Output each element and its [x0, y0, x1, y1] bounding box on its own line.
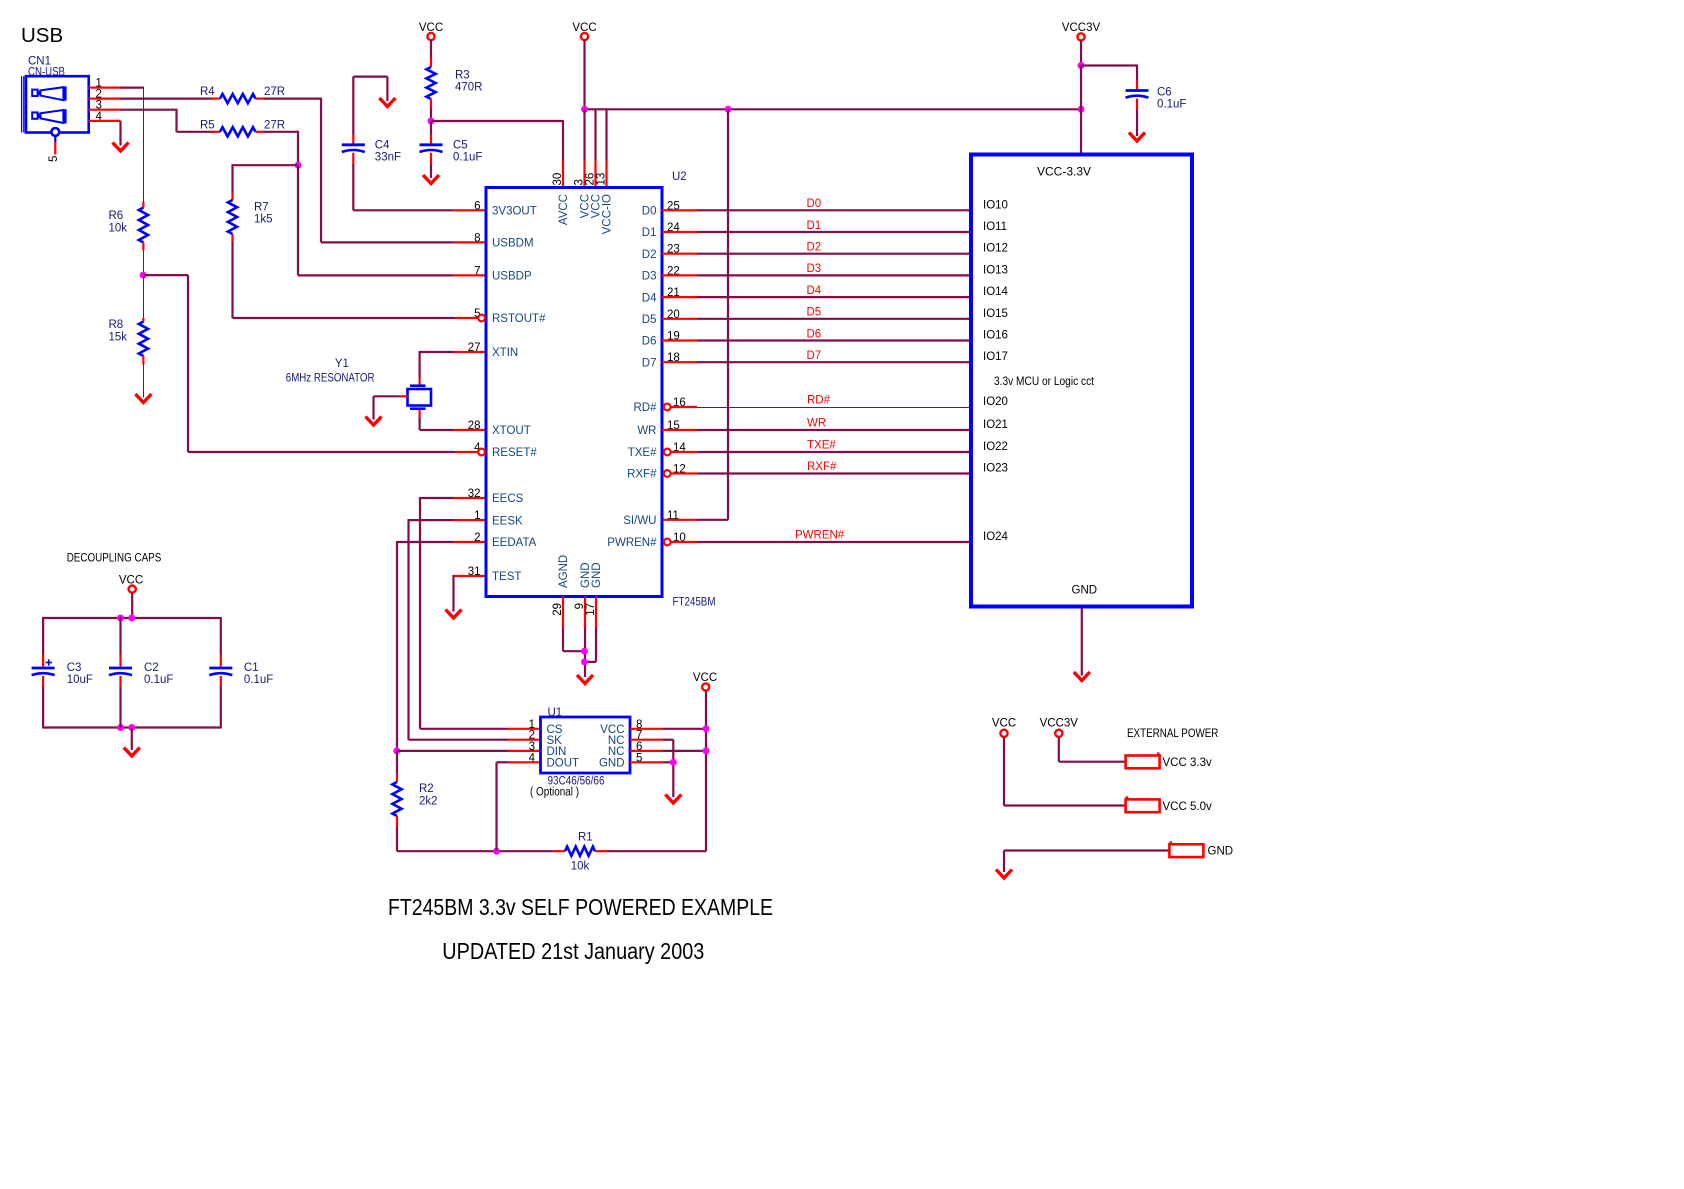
svg-text:D0: D0	[642, 206, 657, 218]
svg-text:28: 28	[468, 420, 481, 432]
svg-text:RESET#: RESET#	[492, 447, 537, 459]
svg-text:XTIN: XTIN	[492, 347, 518, 359]
svg-text:10k: 10k	[109, 223, 128, 235]
svg-text:C6: C6	[1157, 87, 1172, 99]
svg-text:VCC3V: VCC3V	[1040, 718, 1079, 730]
svg-text:DIN: DIN	[547, 746, 567, 758]
svg-text:0.1uF: 0.1uF	[1157, 99, 1186, 111]
svg-text:4: 4	[529, 752, 536, 764]
svg-text:27R: 27R	[264, 120, 285, 132]
svg-text:10uF: 10uF	[67, 674, 93, 686]
svg-text:GND: GND	[591, 562, 603, 588]
svg-text:13: 13	[596, 173, 608, 186]
svg-text:0.1uF: 0.1uF	[453, 152, 482, 164]
svg-text:2: 2	[474, 532, 480, 544]
svg-text:D2: D2	[807, 242, 822, 254]
svg-text:11: 11	[667, 510, 679, 522]
svg-text:D3: D3	[642, 271, 657, 283]
svg-text:NC: NC	[608, 746, 625, 758]
svg-text:USBDM: USBDM	[492, 238, 534, 250]
svg-text:IO11: IO11	[983, 221, 1007, 233]
svg-text:D1: D1	[642, 227, 657, 239]
svg-text:IO22: IO22	[983, 441, 1008, 453]
svg-text:1k5: 1k5	[254, 214, 273, 226]
svg-text:VCC-IO: VCC-IO	[602, 194, 614, 234]
svg-text:( Optional ): ( Optional )	[530, 787, 579, 799]
svg-text:D2: D2	[642, 249, 657, 261]
svg-text:RD#: RD#	[633, 402, 657, 414]
svg-text:D5: D5	[642, 314, 657, 326]
svg-text:NC: NC	[608, 735, 625, 747]
svg-text:GND: GND	[1208, 846, 1234, 858]
svg-text:EECS: EECS	[492, 493, 524, 505]
svg-text:D6: D6	[807, 328, 822, 340]
svg-text:D0: D0	[807, 198, 822, 210]
svg-text:RD#: RD#	[807, 395, 831, 407]
svg-text:D7: D7	[807, 350, 822, 362]
svg-text:RSTOUT#: RSTOUT#	[492, 313, 546, 325]
svg-text:30: 30	[552, 173, 564, 186]
svg-text:VCC-3.3V: VCC-3.3V	[1037, 167, 1091, 179]
svg-text:TXE#: TXE#	[628, 447, 657, 459]
svg-text:27: 27	[468, 342, 481, 354]
svg-text:32: 32	[468, 488, 481, 500]
svg-text:DECOUPLING CAPS: DECOUPLING CAPS	[67, 553, 162, 565]
svg-text:D6: D6	[642, 336, 657, 348]
svg-text:R4: R4	[200, 86, 215, 98]
svg-text:SK: SK	[547, 735, 563, 747]
svg-text:UPDATED 21st January 2003: UPDATED 21st January 2003	[442, 938, 704, 964]
svg-text:C2: C2	[144, 662, 159, 674]
svg-text:D4: D4	[642, 292, 657, 304]
svg-text:RXF#: RXF#	[627, 469, 657, 481]
svg-text:D5: D5	[807, 307, 822, 319]
svg-text:USBDP: USBDP	[492, 271, 532, 283]
svg-text:IO23: IO23	[983, 463, 1008, 475]
svg-text:GND: GND	[599, 758, 625, 770]
svg-text:R7: R7	[254, 202, 269, 214]
svg-text:EEDATA: EEDATA	[492, 537, 537, 549]
svg-text:VCC: VCC	[992, 718, 1016, 730]
svg-text:2: 2	[529, 730, 535, 742]
svg-text:D3: D3	[807, 263, 822, 275]
svg-text:3V3OUT: 3V3OUT	[492, 206, 537, 218]
svg-text:27R: 27R	[264, 86, 285, 98]
svg-text:0.1uF: 0.1uF	[144, 674, 173, 686]
svg-text:C5: C5	[453, 140, 468, 152]
svg-text:R1: R1	[578, 832, 593, 844]
svg-text:TXE#: TXE#	[807, 440, 836, 452]
svg-text:PWREN#: PWREN#	[795, 530, 845, 542]
svg-text:VCC 5.0v: VCC 5.0v	[1163, 801, 1212, 813]
svg-text:IO21: IO21	[983, 419, 1008, 431]
svg-text:FT245BM: FT245BM	[673, 597, 716, 609]
svg-text:XTOUT: XTOUT	[492, 425, 531, 437]
svg-text:0.1uF: 0.1uF	[244, 674, 273, 686]
svg-text:470R: 470R	[455, 82, 483, 94]
svg-text:IO17: IO17	[983, 351, 1008, 363]
svg-text:3: 3	[529, 741, 535, 753]
svg-text:RXF#: RXF#	[807, 461, 837, 473]
svg-text:7: 7	[474, 265, 480, 277]
svg-text:IO10: IO10	[983, 199, 1008, 211]
svg-text:VCC: VCC	[693, 672, 717, 684]
svg-text:SI/WU: SI/WU	[623, 515, 656, 527]
svg-text:1: 1	[474, 510, 480, 522]
svg-text:15k: 15k	[109, 332, 128, 344]
svg-text:C3: C3	[67, 662, 82, 674]
svg-text:D7: D7	[642, 357, 657, 369]
svg-text:U2: U2	[672, 171, 687, 183]
svg-text:IO13: IO13	[983, 264, 1008, 276]
svg-text:WR: WR	[807, 418, 826, 430]
svg-text:IO16: IO16	[983, 330, 1008, 342]
svg-text:6MHz RESONATOR: 6MHz RESONATOR	[286, 373, 375, 385]
svg-text:D1: D1	[807, 220, 822, 232]
svg-text:AVCC: AVCC	[558, 194, 570, 225]
svg-text:AGND: AGND	[558, 555, 570, 588]
svg-text:R8: R8	[109, 319, 124, 331]
svg-text:VCC 3.3v: VCC 3.3v	[1163, 757, 1212, 769]
svg-text:6: 6	[474, 200, 480, 212]
svg-text:C4: C4	[375, 140, 390, 152]
svg-text:Y1: Y1	[335, 358, 349, 370]
svg-text:FT245BM 3.3v SELF POWERED EXAM: FT245BM 3.3v SELF POWERED EXAMPLE	[388, 894, 773, 920]
svg-text:C1: C1	[244, 662, 259, 674]
svg-text:EESK: EESK	[492, 515, 523, 527]
svg-text:R3: R3	[455, 70, 470, 82]
svg-text:WR: WR	[637, 425, 656, 437]
svg-text:R6: R6	[109, 210, 124, 222]
svg-text:3.3v MCU or Logic cct: 3.3v MCU or Logic cct	[994, 376, 1095, 388]
svg-text:2k2: 2k2	[419, 796, 438, 808]
svg-text:8: 8	[474, 232, 480, 244]
svg-text:DOUT: DOUT	[547, 758, 580, 770]
svg-text:USB: USB	[21, 24, 63, 47]
svg-text:TEST: TEST	[492, 571, 521, 583]
svg-text:R5: R5	[200, 120, 215, 132]
svg-text:IO15: IO15	[983, 308, 1008, 320]
svg-text:31: 31	[468, 566, 481, 578]
svg-text:33nF: 33nF	[375, 152, 401, 164]
svg-text:U1: U1	[548, 707, 563, 719]
svg-text:IO20: IO20	[983, 396, 1008, 408]
svg-text:PWREN#: PWREN#	[607, 537, 657, 549]
svg-text:IO14: IO14	[983, 286, 1009, 298]
svg-text:IO24: IO24	[983, 531, 1009, 543]
svg-text:IO12: IO12	[983, 243, 1008, 255]
svg-text:10k: 10k	[571, 861, 590, 873]
svg-text:D4: D4	[807, 285, 822, 297]
svg-text:R2: R2	[419, 783, 434, 795]
svg-text:GND: GND	[1072, 585, 1098, 597]
svg-text:5: 5	[48, 156, 60, 162]
svg-text:EXTERNAL POWER: EXTERNAL POWER	[1127, 728, 1218, 740]
